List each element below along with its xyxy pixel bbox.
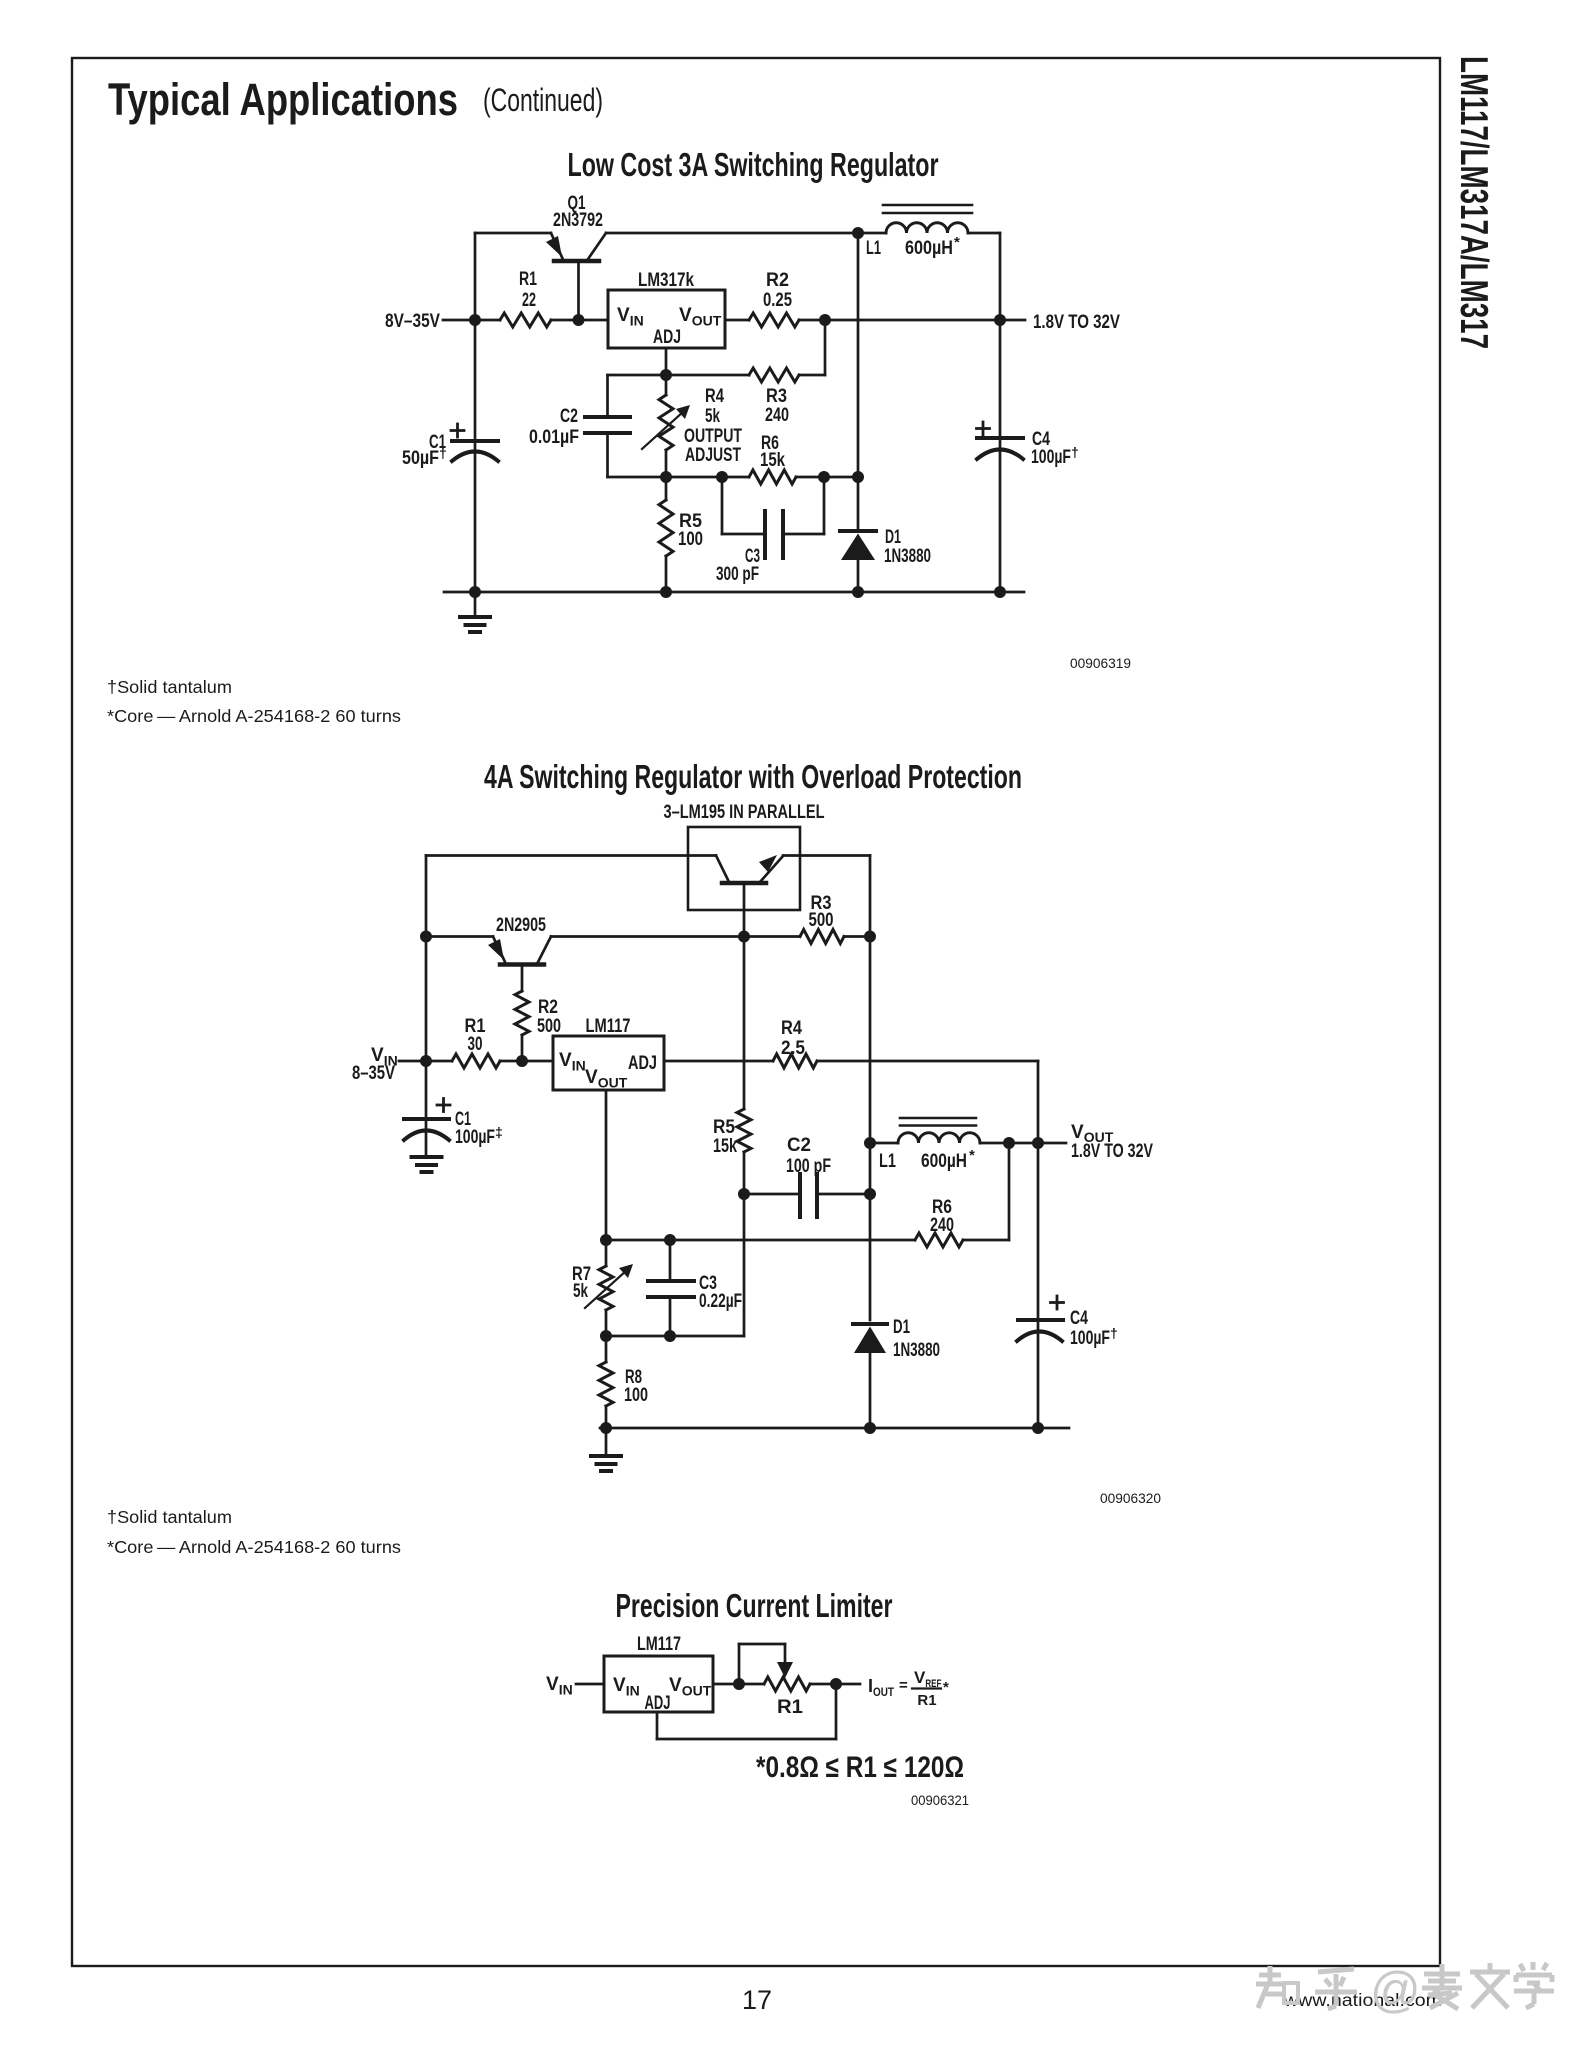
svg-text:50µF: 50µF xyxy=(402,448,439,469)
svg-text:(Continued): (Continued) xyxy=(483,82,603,118)
svg-text:100: 100 xyxy=(678,529,703,550)
svg-text:*: * xyxy=(969,1147,975,1164)
svg-text:240: 240 xyxy=(930,1215,954,1236)
svg-text:LM117/LM317A/LM317: LM117/LM317A/LM317 xyxy=(1452,56,1495,349)
svg-text:30: 30 xyxy=(468,1034,483,1055)
svg-text:†Solid tantalum: †Solid tantalum xyxy=(107,1507,232,1527)
svg-text:*Core — Arnold A-254168-2 60 t: *Core — Arnold A-254168-2 60 turns xyxy=(107,706,401,726)
svg-text:R4: R4 xyxy=(781,1018,802,1039)
svg-text:@: @ xyxy=(1370,1962,1421,2018)
svg-text:C2: C2 xyxy=(560,406,578,427)
svg-text:R3: R3 xyxy=(766,386,787,407)
svg-text:8–35V: 8–35V xyxy=(352,1063,395,1084)
svg-text:2N3792: 2N3792 xyxy=(553,210,603,231)
svg-text:LM117: LM117 xyxy=(586,1016,631,1037)
svg-text:Typical Applications: Typical Applications xyxy=(108,74,458,125)
svg-text:L1: L1 xyxy=(866,238,881,259)
svg-text:L1: L1 xyxy=(879,1151,896,1172)
svg-text:17: 17 xyxy=(742,1985,772,2015)
svg-text:*Core — Arnold A-254168-2 60 t: *Core — Arnold A-254168-2 60 turns xyxy=(107,1537,401,1557)
svg-text:R5: R5 xyxy=(713,1117,735,1138)
svg-text:3–LM195 IN PARALLEL: 3–LM195 IN PARALLEL xyxy=(664,802,825,823)
svg-text:*: * xyxy=(954,234,960,251)
svg-text:ADJ: ADJ xyxy=(628,1053,657,1074)
svg-text:D1: D1 xyxy=(893,1317,910,1338)
svg-text:00906321: 00906321 xyxy=(911,1792,969,1808)
svg-text:†Solid tantalum: †Solid tantalum xyxy=(107,677,232,697)
svg-text:00906319: 00906319 xyxy=(1070,655,1131,671)
svg-text:†: † xyxy=(1071,444,1079,460)
svg-text:4A Switching Regulator with Ov: 4A Switching Regulator with Overload Pro… xyxy=(484,758,1022,795)
svg-text:1.8V TO 32V: 1.8V TO 32V xyxy=(1033,312,1120,333)
svg-text:LM117: LM117 xyxy=(637,1634,681,1655)
svg-text:2.5: 2.5 xyxy=(781,1038,805,1059)
svg-text:240: 240 xyxy=(765,405,789,426)
svg-text:R2: R2 xyxy=(766,270,789,291)
svg-text:R4: R4 xyxy=(705,386,724,407)
svg-text:OUTPUT: OUTPUT xyxy=(684,426,742,447)
svg-text:ADJUST: ADJUST xyxy=(685,445,741,466)
svg-text:100µF: 100µF xyxy=(1070,1328,1110,1349)
svg-text:500: 500 xyxy=(537,1016,561,1037)
svg-text:C2: C2 xyxy=(787,1135,811,1156)
svg-text:R1: R1 xyxy=(519,269,537,290)
svg-text:Low Cost 3A Switching Regulato: Low Cost 3A Switching Regulator xyxy=(568,146,939,183)
svg-text:100 pF: 100 pF xyxy=(786,1156,831,1177)
svg-text:C4: C4 xyxy=(1070,1308,1088,1329)
svg-text:5k: 5k xyxy=(705,406,720,427)
svg-text:Precision Current Limiter: Precision Current Limiter xyxy=(616,1587,893,1624)
svg-text:0.22µF: 0.22µF xyxy=(699,1291,742,1312)
svg-text:LM317k: LM317k xyxy=(638,270,694,291)
svg-text:0.01µF: 0.01µF xyxy=(529,427,579,448)
svg-text:600µH: 600µH xyxy=(921,1151,967,1172)
svg-text:5k: 5k xyxy=(573,1281,588,1302)
svg-text:600µH: 600µH xyxy=(905,238,953,259)
svg-text:100µF: 100µF xyxy=(455,1127,495,1148)
svg-text:8V–35V: 8V–35V xyxy=(385,311,440,332)
svg-text:*: * xyxy=(943,1679,949,1696)
svg-text:15k: 15k xyxy=(713,1136,737,1157)
svg-text:†: † xyxy=(1110,1325,1118,1341)
svg-text:1N3880: 1N3880 xyxy=(884,546,931,567)
svg-text:100: 100 xyxy=(624,1385,648,1406)
svg-text:‡: ‡ xyxy=(495,1124,503,1140)
svg-text:15k: 15k xyxy=(760,450,785,471)
svg-text:22: 22 xyxy=(522,290,536,311)
svg-text:*0.8Ω ≤ R1 ≤ 120Ω: *0.8Ω ≤ R1 ≤ 120Ω xyxy=(756,1751,964,1784)
svg-text:=: = xyxy=(899,1677,908,1694)
svg-text:R2: R2 xyxy=(538,997,558,1018)
svg-text:R1: R1 xyxy=(777,1697,803,1718)
svg-text:D1: D1 xyxy=(885,527,901,548)
svg-text:500: 500 xyxy=(809,910,834,931)
svg-text:1.8V TO 32V: 1.8V TO 32V xyxy=(1071,1141,1153,1162)
svg-text:00906320: 00906320 xyxy=(1100,1490,1161,1506)
svg-text:R1: R1 xyxy=(917,1692,936,1709)
svg-text:1N3880: 1N3880 xyxy=(893,1340,940,1361)
svg-text:†: † xyxy=(439,445,447,461)
svg-text:2N2905: 2N2905 xyxy=(496,915,546,936)
svg-text:300 pF: 300 pF xyxy=(716,564,759,585)
svg-text:ADJ: ADJ xyxy=(653,327,681,348)
svg-text:100µF: 100µF xyxy=(1031,447,1071,468)
svg-text:0.25: 0.25 xyxy=(763,290,792,311)
